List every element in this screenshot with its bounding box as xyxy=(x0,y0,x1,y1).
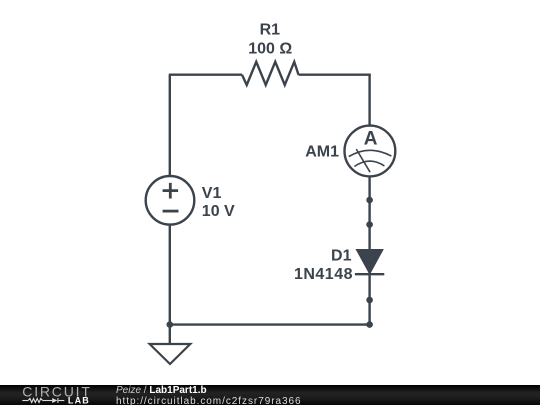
node junction dot xyxy=(167,321,174,328)
wire ground stem xyxy=(169,325,171,344)
node junction dot xyxy=(366,297,373,304)
svg-text:1N4148: 1N4148 xyxy=(294,266,353,283)
wire bottom rail xyxy=(170,323,370,325)
diode D1 xyxy=(355,250,384,275)
svg-text:D1: D1 xyxy=(331,248,352,265)
voltage source V1 xyxy=(146,176,195,225)
svg-text:A: A xyxy=(364,129,378,150)
wire top horizontal right segment xyxy=(299,73,371,75)
wire top-left vertical (V1 top to corner) xyxy=(169,75,171,176)
wire top horizontal left segment xyxy=(169,73,242,75)
svg-text:R1: R1 xyxy=(260,21,281,38)
footer bar xyxy=(0,385,540,405)
node junction dot xyxy=(366,321,373,328)
ammeter AM1 xyxy=(345,126,396,177)
svg-text:10 V: 10 V xyxy=(202,203,235,220)
wire left lower vertical (V1 bottom to bottom rail) xyxy=(169,225,171,325)
svg-text:100 Ω: 100 Ω xyxy=(248,41,292,58)
svg-text:V1: V1 xyxy=(202,185,222,202)
node junction dot xyxy=(366,221,373,228)
ground xyxy=(150,344,191,364)
svg-text:AM1: AM1 xyxy=(305,144,339,161)
footer text xyxy=(116,386,302,407)
resistor R1 xyxy=(242,62,299,85)
wire right vertical (corner to ammeter top) xyxy=(368,75,370,126)
CircuitLab logo xyxy=(0,385,100,405)
svg-text:LAB: LAB xyxy=(68,395,90,405)
node junction dot xyxy=(366,197,373,204)
wire right lower vertical (ammeter bottom to bottom rail) xyxy=(368,176,370,324)
